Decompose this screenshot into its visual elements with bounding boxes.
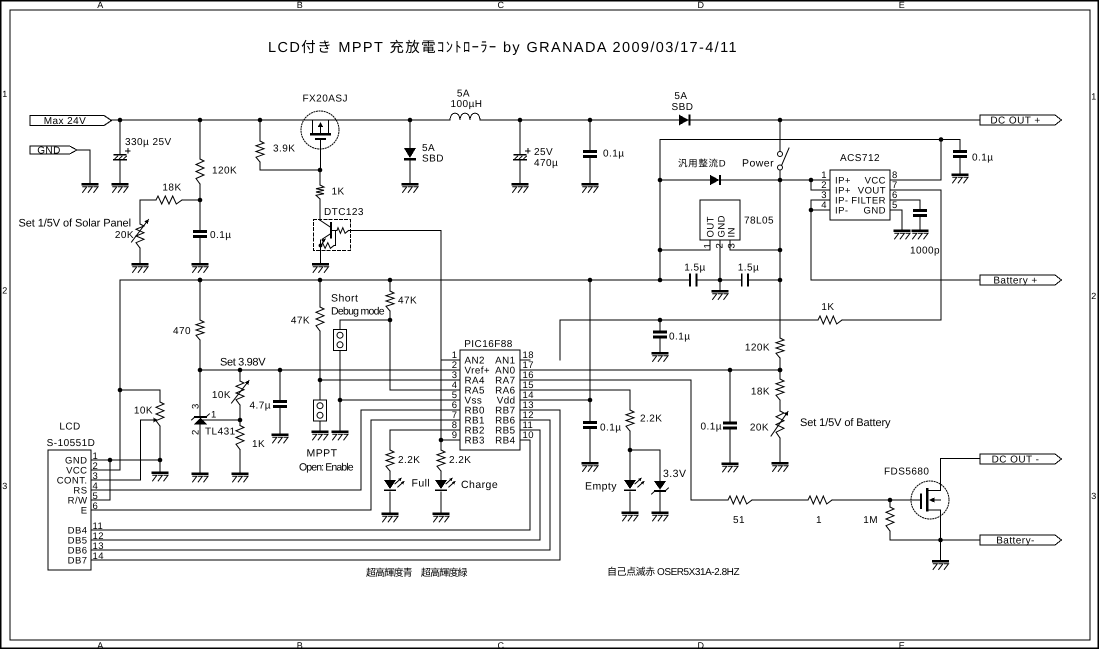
svg-text:1M: 1M xyxy=(863,515,878,526)
ground 0.1u rail xyxy=(582,183,599,186)
capacitor 1.5u left xyxy=(689,274,691,287)
transistor U FX20ASJ pmos xyxy=(301,111,339,170)
svg-text:C: C xyxy=(498,640,505,650)
svg-text:FX20ASJ: FX20ASJ xyxy=(303,94,348,105)
svg-text:1.5µ: 1.5µ xyxy=(684,263,705,274)
wire Max24V to rail xyxy=(112,119,121,121)
svg-text:0.1µ: 0.1µ xyxy=(603,149,624,160)
transistor Q DTC123 xyxy=(314,220,351,264)
svg-text:A: A xyxy=(97,640,103,650)
svg-text:E: E xyxy=(81,505,88,516)
svg-text:47K: 47K xyxy=(398,296,417,307)
pin LCD 5 R/W xyxy=(91,499,101,501)
svg-text:120K: 120K xyxy=(212,166,237,177)
column labels bottom A-E xyxy=(97,640,905,650)
svg-text:Battery-: Battery- xyxy=(996,536,1035,547)
node switch diode junction xyxy=(778,178,783,183)
svg-text:B: B xyxy=(297,640,303,650)
svg-text:FDS5680: FDS5680 xyxy=(884,467,929,478)
svg-text:3: 3 xyxy=(727,243,738,249)
wire FILTER pin6 xyxy=(890,200,920,210)
pin LCD 11 DB4 xyxy=(91,529,101,531)
ground GND xyxy=(82,183,99,186)
svg-text:Empty: Empty xyxy=(585,481,617,493)
LED Charge xyxy=(435,480,447,489)
pin LCD 2 VCC xyxy=(91,469,101,471)
node RB3 junction xyxy=(439,438,444,443)
svg-text:2: 2 xyxy=(715,243,726,249)
node y280 junctions xyxy=(198,278,203,283)
node Vss junction xyxy=(338,398,343,403)
column labels top A-E xyxy=(97,0,905,10)
node debug junction xyxy=(388,318,393,323)
svg-text:Set 3.98V: Set 3.98V xyxy=(220,357,266,369)
ground zener xyxy=(652,511,669,514)
capacitor 1000p xyxy=(913,209,927,212)
svg-text:D: D xyxy=(698,640,705,650)
wire rectifier row xyxy=(660,179,710,181)
svg-text:DB7: DB7 xyxy=(68,555,88,566)
resistor 18K solar xyxy=(140,199,156,201)
svg-text:18K: 18K xyxy=(751,387,770,398)
wire LCD DB7 to RB7 xyxy=(101,410,560,560)
wire main rail xyxy=(120,119,450,121)
wire Vss row xyxy=(340,399,460,401)
diode zener 3.3V xyxy=(654,481,666,490)
wire LCD DB4 to RB4 xyxy=(101,440,530,530)
regulator U 78L05 xyxy=(700,200,740,240)
wire Battery- row xyxy=(890,539,980,541)
wire vcc to pot 10K xyxy=(120,389,160,391)
ground 4.7u xyxy=(272,433,289,436)
diode rectifier xyxy=(710,175,719,185)
IC PIC16F88 box xyxy=(460,350,520,450)
connector J LCD S-10551D xyxy=(48,450,91,570)
node pot bottom xyxy=(158,458,163,463)
svg-text:1K: 1K xyxy=(252,439,265,450)
node lcd pot vcc xyxy=(118,388,123,393)
wire 78L05 in xyxy=(730,249,780,251)
svg-text:0.1µ: 0.1µ xyxy=(600,423,621,434)
svg-text:SBD: SBD xyxy=(422,154,444,165)
wire RA6 to empty led xyxy=(520,390,630,410)
wire AN1 net y320 xyxy=(560,320,818,360)
wire 3.9K to gate node xyxy=(260,169,320,171)
wire drain to DC OUT- xyxy=(941,458,981,460)
svg-text:DC OUT +: DC OUT + xyxy=(990,116,1040,127)
ground TL431 xyxy=(192,472,209,475)
resistor 2.2K full xyxy=(386,450,394,471)
svg-text:6: 6 xyxy=(93,501,99,512)
wire IP- pin3 xyxy=(811,200,830,210)
pin LCD 12 DB5 xyxy=(91,539,101,541)
row labels left 1-3 xyxy=(2,89,7,491)
svg-text:2.2K: 2.2K xyxy=(449,455,471,466)
svg-text:Set 1/5V of Solar Panel: Set 1/5V of Solar Panel xyxy=(19,218,132,230)
svg-text:1000p: 1000p xyxy=(910,246,940,257)
wire Vdd row xyxy=(520,399,590,401)
wire AN2 row xyxy=(441,359,460,361)
node 5V loop out xyxy=(658,248,663,253)
resistor 1 gate xyxy=(808,496,832,504)
capacitor 470u 25V xyxy=(519,120,521,154)
svg-text:OUT: OUT xyxy=(705,216,716,237)
wire LCD DB6 to RB6 xyxy=(101,420,550,550)
ground charge led xyxy=(433,512,450,515)
wire GND pin5 xyxy=(890,210,902,230)
node rail junctions xyxy=(118,118,123,123)
resistor 18K battery xyxy=(779,370,781,379)
svg-text:LCD: LCD xyxy=(59,422,80,433)
resistor 1K vref xyxy=(239,420,241,426)
svg-text:1: 1 xyxy=(1091,92,1096,102)
ground full led xyxy=(382,512,399,515)
ground empty led xyxy=(622,511,639,514)
svg-text:SBD: SBD xyxy=(672,102,694,113)
connector DC OUT + xyxy=(980,115,1062,125)
wire 78L05 out xyxy=(660,249,710,251)
ground 78L05 xyxy=(719,280,721,290)
wire 5V rail y280 xyxy=(120,279,690,281)
wire debug jumper link xyxy=(340,320,390,330)
ground 330u xyxy=(112,183,129,186)
svg-text:Full: Full xyxy=(412,478,431,490)
svg-text:1: 1 xyxy=(703,243,714,249)
row labels right 1-3 xyxy=(1091,92,1096,502)
resistor 470 xyxy=(199,280,201,320)
pin LCD 4 RS xyxy=(91,489,101,491)
capacitor 0.1u an1 xyxy=(659,320,661,332)
node source junction xyxy=(938,538,943,543)
resistor 2.2K charge xyxy=(440,440,442,450)
wire RB3 row xyxy=(441,439,450,441)
svg-text:S-10551D: S-10551D xyxy=(47,438,96,449)
svg-text:5A: 5A xyxy=(674,91,687,102)
svg-text:Charge: Charge xyxy=(461,479,498,491)
svg-text:3: 3 xyxy=(1091,491,1096,501)
node vref junctions xyxy=(198,368,203,373)
capacitor 4.7u xyxy=(279,370,281,401)
node gate 1K junction xyxy=(318,168,323,173)
svg-text:Set 1/5V of Battery: Set 1/5V of Battery xyxy=(800,417,891,429)
svg-text:20K: 20K xyxy=(750,423,769,434)
wire lcd gnd row xyxy=(101,459,160,461)
svg-text:IN: IN xyxy=(726,227,737,237)
pin numbers PIC left xyxy=(452,350,458,441)
capacitor 0.1u solar xyxy=(199,200,201,231)
node 470 top xyxy=(198,278,203,283)
svg-text:10K: 10K xyxy=(134,406,153,417)
wire 5V rail horizontal xyxy=(660,139,941,141)
resistor 47K debug xyxy=(389,280,391,291)
svg-text:汎用整流D: 汎用整流D xyxy=(678,159,726,170)
svg-text:0.1µ: 0.1µ xyxy=(210,230,231,241)
svg-text:0.1µ: 0.1µ xyxy=(669,332,690,343)
wire AN0 row xyxy=(520,369,780,371)
resistor 1M xyxy=(889,500,891,507)
svg-text:Battery +: Battery + xyxy=(993,276,1037,287)
svg-text:3.3V: 3.3V xyxy=(663,468,686,480)
wire RA4 row xyxy=(320,379,460,381)
ground 1K vref xyxy=(232,472,249,475)
svg-text:自己点滅赤 OSER5X31A-2.8HZ: 自己点滅赤 OSER5X31A-2.8HZ xyxy=(607,566,740,578)
ground 20K solar xyxy=(132,263,149,266)
wire gate drive right xyxy=(832,499,890,501)
svg-text:TL431: TL431 xyxy=(205,427,236,438)
ground 1000p xyxy=(912,229,929,232)
svg-text:LCD付き MPPT 充放電ｺﾝﾄﾛｰﾗｰ by GRANA: LCD付き MPPT 充放電ｺﾝﾄﾛｰﾗｰ by GRANADA 2009/03… xyxy=(268,39,737,56)
transistor Q FDS5680 nmos xyxy=(890,459,949,541)
ground MPPT jumper xyxy=(319,421,321,431)
wire 5V loop left xyxy=(659,140,661,281)
wire zener branch xyxy=(630,450,660,481)
wiper contrast xyxy=(141,420,152,480)
pin LCD 13 DB6 xyxy=(91,549,101,551)
svg-text:Max 24V: Max 24V xyxy=(44,116,87,127)
wire Vdd column xyxy=(589,280,591,400)
svg-text:C: C xyxy=(498,0,505,10)
node IP- junction xyxy=(809,208,814,213)
ground 0.1u an0 xyxy=(722,462,739,465)
wire gnd segment y280 xyxy=(696,279,741,281)
wire VCC net left to LCD xyxy=(101,280,120,470)
svg-text:470: 470 xyxy=(173,326,191,337)
svg-text:DC OUT -: DC OUT - xyxy=(992,455,1040,466)
svg-text:1K: 1K xyxy=(332,187,345,198)
ground DTC123 emitter xyxy=(312,263,329,266)
pin numbers ACS712 right xyxy=(892,170,898,211)
node cap row right junction xyxy=(778,278,783,283)
ground 0.1u vdd xyxy=(582,462,599,465)
svg-text:E: E xyxy=(899,640,905,650)
node 0.1u an1 junction xyxy=(658,318,663,323)
svg-text:120K: 120K xyxy=(745,343,770,354)
wire VCC pin8 xyxy=(890,140,941,181)
svg-text:RB4: RB4 xyxy=(495,436,516,447)
wire IP+ pin2 xyxy=(811,180,830,190)
resistor 120K battery xyxy=(776,338,784,358)
pin LCD 14 DB7 xyxy=(91,559,101,561)
svg-text:330µ 25V: 330µ 25V xyxy=(125,137,172,148)
connector GND xyxy=(30,146,77,154)
node RA4 tap xyxy=(318,378,323,383)
resistor 120K xyxy=(199,120,201,159)
wire switch segment y280 xyxy=(748,279,780,281)
LED Full xyxy=(384,480,396,489)
capacitor 330u 25V xyxy=(119,120,121,154)
svg-text:2: 2 xyxy=(191,429,202,435)
svg-text:2: 2 xyxy=(1091,291,1096,301)
wire LCD E to RB1 xyxy=(101,420,460,510)
ground battery divider xyxy=(772,462,789,465)
svg-text:A: A xyxy=(97,0,103,10)
svg-text:PIC16F88: PIC16F88 xyxy=(464,339,513,350)
node battery divider tap xyxy=(778,368,783,373)
svg-text:100µH: 100µH xyxy=(451,99,483,110)
wire IP- pin4 xyxy=(811,209,830,211)
svg-text:47K: 47K xyxy=(291,316,310,327)
svg-text:3.9K: 3.9K xyxy=(273,144,295,155)
wire LCD RS to RB0 xyxy=(101,410,460,490)
diode 5A SBD series xyxy=(679,115,689,126)
wire debug to Vss xyxy=(339,351,341,401)
svg-text:D: D xyxy=(698,0,705,10)
connector Max 24V xyxy=(30,116,112,126)
IC ACS712 box xyxy=(830,170,890,220)
svg-text:78L05: 78L05 xyxy=(744,216,774,227)
svg-text:1.5µ: 1.5µ xyxy=(738,263,759,274)
ground contrast pot xyxy=(159,460,161,472)
node 18K junction xyxy=(198,198,203,203)
node AN0 junctions xyxy=(728,368,733,373)
wire LCD DB5 to RB5 xyxy=(101,430,540,540)
switch Power xyxy=(779,120,781,151)
wire Vref row xyxy=(200,369,460,371)
capacitor 0.1u VCC xyxy=(941,140,960,152)
svg-text:0.1µ: 0.1µ xyxy=(701,422,722,433)
potentiometer 20K solar xyxy=(139,200,141,224)
svg-text:ACS712: ACS712 xyxy=(840,153,880,164)
svg-text:18K: 18K xyxy=(162,182,181,193)
svg-text:5A: 5A xyxy=(422,143,435,154)
connector DC OUT - xyxy=(980,454,1062,464)
node empty zener junction xyxy=(628,448,633,453)
ground 0.1u an1 xyxy=(652,352,669,355)
node IP+ split xyxy=(809,178,814,183)
svg-text:1: 1 xyxy=(816,515,822,526)
svg-text:5A: 5A xyxy=(457,89,470,100)
svg-text:1: 1 xyxy=(211,410,217,421)
resistor 51 xyxy=(728,496,752,504)
jumper MPPT xyxy=(313,400,326,421)
jumper Debug xyxy=(333,330,346,351)
node gate node xyxy=(888,498,893,503)
node 78L05 gnd xyxy=(718,278,723,283)
ground 470u xyxy=(512,183,529,186)
resistor 3.9K xyxy=(259,120,261,141)
svg-text:1K: 1K xyxy=(821,302,834,313)
node 78L05 in junction xyxy=(778,248,783,253)
svg-text:2.2K: 2.2K xyxy=(640,414,662,425)
svg-text:GND: GND xyxy=(864,206,886,217)
resistor 2.2K empty xyxy=(626,410,634,431)
svg-text:3: 3 xyxy=(2,481,7,491)
resistor 47K mppt xyxy=(319,280,321,307)
svg-text:0.1µ: 0.1µ xyxy=(972,153,993,164)
inductor 100uH xyxy=(450,113,480,120)
svg-text:超高輝度青 超高輝度緑: 超高輝度青 超高輝度緑 xyxy=(366,567,468,579)
ground source xyxy=(940,540,942,560)
resistor 1K gate xyxy=(319,170,321,185)
pin LCD 6 E xyxy=(91,509,101,511)
wire lcd pin3 xyxy=(101,479,141,481)
svg-text:2.2K: 2.2K xyxy=(398,455,420,466)
resistor 1K feedback xyxy=(818,316,842,324)
wire RB2 to Full led xyxy=(390,430,460,450)
wire GND to ground xyxy=(77,150,90,183)
pin numbers PIC right xyxy=(523,350,534,441)
svg-text:GND: GND xyxy=(37,146,61,157)
pin LCD 1 GND xyxy=(91,459,101,461)
node lcd gnd branch xyxy=(108,458,113,463)
svg-text:25V: 25V xyxy=(534,147,553,158)
svg-text:Short: Short xyxy=(331,293,358,305)
svg-text:MPPT: MPPT xyxy=(307,448,338,460)
ground ACS712 xyxy=(894,229,911,232)
capacitor 0.1u rail xyxy=(589,120,591,151)
potentiometer 20K battery xyxy=(776,411,784,438)
pin stubs PIC left xyxy=(450,359,460,361)
pin stubs PIC right xyxy=(520,359,530,361)
node VCC corner xyxy=(939,137,944,142)
ground 0.1u solar xyxy=(192,263,209,266)
wire battery sense column xyxy=(779,180,781,338)
wire DTC123 base to RB3 column xyxy=(351,231,442,441)
wire gate drive mid xyxy=(752,499,808,501)
node Vdd junction xyxy=(588,398,593,403)
capacitor 0.1u vdd xyxy=(589,400,591,422)
svg-text:Power: Power xyxy=(742,158,774,170)
wire RW to GND xyxy=(101,460,110,500)
pin 78L05 1 xyxy=(709,240,711,250)
connector Battery + xyxy=(980,275,1062,285)
wire VOUT pin7 xyxy=(890,190,941,320)
pin numbers ACS712 left xyxy=(821,170,827,211)
svg-text:10K: 10K xyxy=(212,390,231,401)
wire IP- to Battery+ xyxy=(811,210,980,280)
svg-text:1: 1 xyxy=(2,89,7,99)
svg-text:Open: Enable: Open: Enable xyxy=(299,462,354,474)
ground 0.1u VCC xyxy=(952,173,969,176)
ground 5A SBD xyxy=(402,183,419,186)
wire RA7 to gate drive xyxy=(520,380,728,500)
wire RA5 riser xyxy=(390,320,460,390)
svg-text:4: 4 xyxy=(821,200,827,211)
pin 78L05 3 xyxy=(729,240,731,250)
svg-text:IP-: IP- xyxy=(835,206,849,217)
diode 5A SBD shunt xyxy=(409,120,411,148)
svg-text:RB3: RB3 xyxy=(465,436,486,447)
svg-text:51: 51 xyxy=(733,515,745,526)
svg-text:5: 5 xyxy=(892,200,898,211)
svg-text:470µ: 470µ xyxy=(534,158,558,169)
ground Vss xyxy=(339,400,341,431)
potentiometer 10K vref xyxy=(239,370,241,381)
connector Battery- xyxy=(980,535,1062,545)
svg-text:Debug mode: Debug mode xyxy=(331,306,385,318)
svg-text:3: 3 xyxy=(191,403,202,409)
svg-text:B: B xyxy=(297,0,303,10)
pin LCD 3 CONT. xyxy=(91,479,101,481)
svg-text:4.7µ: 4.7µ xyxy=(250,401,271,412)
LED Empty xyxy=(629,450,631,480)
pin 78L05 2 xyxy=(719,240,721,280)
potentiometer 10K contrast xyxy=(159,390,161,402)
capacitor 0.1u an0 xyxy=(729,370,731,423)
svg-text:20K: 20K xyxy=(115,230,134,241)
svg-text:2: 2 xyxy=(2,286,7,296)
node loop diode junction xyxy=(658,178,663,183)
capacitor 1.5u right xyxy=(741,274,743,287)
svg-text:DTC123: DTC123 xyxy=(324,207,364,218)
regulator D TL431 xyxy=(192,370,240,473)
node vref divider xyxy=(238,418,243,423)
svg-text:E: E xyxy=(899,0,905,10)
